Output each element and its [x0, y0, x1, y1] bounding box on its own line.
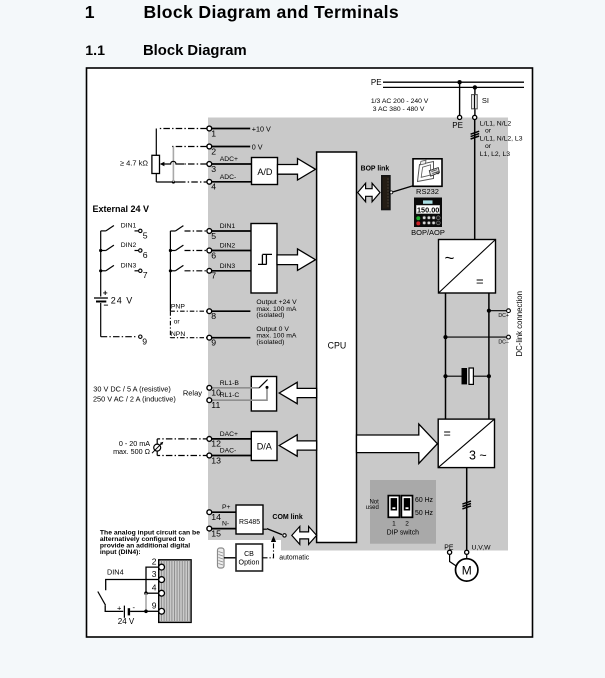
svg-text:SI: SI: [482, 96, 489, 105]
external switch DIN1: [101, 223, 148, 241]
arrow CPU to inverter: [357, 424, 438, 464]
wire potentiometer to terminal 4: [156, 174, 207, 184]
svg-text:max. 500 Ω: max. 500 Ω: [113, 447, 151, 456]
terminal 12 DAC+: [157, 431, 251, 449]
svg-text:250 V AC / 2 A (inductive): 250 V AC / 2 A (inductive): [93, 394, 176, 403]
svg-text:DIN4: DIN4: [107, 568, 124, 577]
svg-text:0 V: 0 V: [252, 142, 263, 151]
svg-text:−: −: [104, 300, 109, 310]
svg-text:(isolated): (isolated): [256, 312, 284, 319]
BOP link double arrow: [358, 183, 380, 202]
inverter gray body: [208, 118, 508, 551]
svg-text:7: 7: [211, 271, 216, 281]
svg-text:30 V DC / 5 A (resistive): 30 V DC / 5 A (resistive): [93, 385, 170, 394]
arrow DIN to CPU: [277, 249, 316, 271]
DIN4 terminal bus: [144, 567, 159, 613]
svg-text:RL1-B: RL1-B: [220, 380, 240, 387]
DIN4 block terminal 9: [152, 601, 165, 615]
terminal 5 DIN1: [207, 223, 251, 241]
svg-text:1: 1: [211, 128, 216, 138]
svg-text:or: or: [174, 318, 181, 325]
svg-text:2: 2: [211, 146, 216, 156]
svg-text:A/D: A/D: [257, 167, 273, 177]
svg-text:5: 5: [143, 230, 148, 240]
potentiometer R1: [120, 155, 160, 173]
motor wire: [462, 468, 471, 550]
internal supply rail: [169, 231, 171, 338]
external battery 24 V: [94, 287, 133, 310]
svg-text:11: 11: [211, 400, 220, 410]
rectifier block: [439, 240, 496, 294]
gray wire terminal 2 down: [172, 147, 207, 183]
relay contact symbol: [259, 380, 269, 389]
terminal 9 output 0V: [207, 326, 297, 348]
mains input wire: [471, 120, 480, 240]
DIN4 note paragraph: [100, 529, 200, 556]
terminal 1: [207, 124, 271, 138]
mains terminal labels: [480, 120, 523, 158]
svg-text:BOP/AOP: BOP/AOP: [411, 228, 445, 237]
DC+ terminal: [487, 309, 511, 319]
NPN wire to 9: [170, 331, 206, 338]
svg-text:1: 1: [85, 2, 95, 22]
DIN4 block terminal 3: [152, 569, 165, 582]
svg-text:CB: CB: [244, 550, 254, 558]
DC bus left wire: [445, 293, 447, 419]
terminal 8 output 24V: [207, 299, 297, 321]
svg-text:N-: N-: [222, 521, 229, 528]
PNP wire to 8: [170, 304, 206, 312]
DIN4 block terminal 4: [152, 582, 165, 596]
svg-text:2: 2: [152, 556, 157, 566]
terminal 6 DIN2: [207, 243, 251, 261]
svg-text:3 ~: 3 ~: [469, 449, 487, 463]
svg-text:NPN: NPN: [171, 331, 185, 338]
svg-text:7: 7: [143, 270, 148, 280]
internal switch DIN2: [169, 245, 207, 252]
svg-text:BOP link: BOP link: [361, 165, 390, 172]
svg-text:P+: P+: [222, 504, 231, 511]
svg-text:13: 13: [211, 455, 221, 465]
svg-text:Option: Option: [239, 559, 260, 567]
CPU U1: [317, 152, 357, 543]
automatic dash-dot wire: [263, 536, 310, 562]
external common wire to 9: [101, 335, 148, 346]
svg-text:+10 V: +10 V: [252, 124, 271, 133]
arrow A/D to CPU: [278, 159, 316, 181]
DC bus right wire: [488, 293, 490, 419]
external switch DIN3: [99, 263, 148, 281]
diagram frame: [87, 68, 533, 637]
svg-text:6: 6: [143, 250, 148, 260]
inverter block: [438, 419, 494, 468]
RS232 box: [413, 159, 442, 187]
BOP connector strip: [381, 175, 413, 210]
svg-text:PE: PE: [371, 78, 382, 87]
terminal 14 P+: [207, 504, 236, 522]
svg-text:14: 14: [211, 512, 221, 522]
svg-text:24 V: 24 V: [118, 617, 135, 626]
terminal 10 RL1-B: [207, 380, 259, 398]
wire terminal 1 to potentiometer: [156, 129, 207, 156]
PE drop wire: [452, 80, 463, 130]
RS485 box: [236, 505, 263, 534]
svg-text:L1, L2, L3: L1, L2, L3: [480, 151, 510, 158]
svg-text:DIN3: DIN3: [121, 263, 137, 270]
svg-text:4: 4: [152, 582, 157, 592]
svg-text:PE: PE: [452, 121, 463, 130]
svg-text:DIN2: DIN2: [121, 242, 137, 249]
svg-text:ADC+: ADC+: [220, 156, 238, 163]
fuse SI: [472, 85, 489, 119]
svg-text:RS232: RS232: [416, 187, 439, 196]
svg-text:(isolated): (isolated): [256, 339, 284, 346]
svg-text:1.1: 1.1: [85, 43, 105, 59]
mains line: [383, 86, 524, 88]
svg-text:15: 15: [211, 528, 221, 538]
svg-text:6: 6: [211, 250, 216, 260]
svg-text:input (DIN4):: input (DIN4):: [100, 549, 141, 556]
terminal 7 DIN3: [207, 263, 251, 281]
DIN4 block terminal 2: [152, 556, 165, 570]
svg-text:24 V: 24 V: [111, 296, 134, 306]
svg-text:5: 5: [211, 231, 216, 241]
DIP switch panel: [366, 480, 436, 544]
PE line: [383, 81, 524, 83]
CB option module: [236, 544, 263, 571]
relay RL1 box: [251, 377, 276, 412]
COM link switch: [263, 529, 286, 538]
svg-text:9: 9: [152, 601, 157, 611]
svg-text:COM link: COM link: [272, 514, 302, 521]
DIN4 switch: [98, 580, 146, 612]
svg-text:PE: PE: [444, 545, 454, 552]
svg-text:+: +: [117, 604, 122, 613]
svg-text:=: =: [444, 427, 451, 441]
DC- terminal: [443, 335, 510, 346]
svg-text:ADC-: ADC-: [220, 174, 237, 181]
svg-text:Block Diagram and Terminals: Block Diagram and Terminals: [144, 2, 400, 22]
svg-text:DC–: DC–: [498, 340, 508, 346]
terminal 13 DAC-: [157, 448, 251, 466]
svg-text:DIP switch: DIP switch: [387, 529, 420, 536]
svg-text:DIN3: DIN3: [220, 263, 236, 270]
svg-text:=: =: [476, 274, 484, 289]
COM link double arrow: [292, 526, 317, 544]
digital input stage box: [251, 224, 277, 294]
internal switch DIN3: [169, 265, 207, 272]
external supply rail: [100, 231, 102, 337]
svg-text:50 Hz: 50 Hz: [415, 510, 434, 517]
svg-text:3: 3: [211, 164, 216, 174]
svg-text:150.00: 150.00: [417, 205, 439, 214]
svg-text:PNP: PNP: [171, 304, 185, 311]
svg-text:RL1-C: RL1-C: [220, 392, 240, 399]
svg-text:60 Hz: 60 Hz: [415, 497, 434, 504]
output current meter: [113, 439, 163, 456]
svg-text:External 24 V: External 24 V: [93, 204, 150, 214]
BOP/AOP panel: [414, 198, 442, 228]
motor M: [456, 559, 478, 581]
terminal 2: [207, 142, 263, 156]
svg-text:DAC+: DAC+: [220, 431, 238, 438]
svg-text:3 AC 380 - 480 V: 3 AC 380 - 480 V: [373, 106, 425, 113]
U,V,W output terminal: [465, 545, 491, 559]
svg-text:DIN2: DIN2: [220, 243, 236, 250]
svg-text:2: 2: [405, 521, 409, 528]
svg-text:or: or: [485, 143, 492, 150]
svg-text:1/3 AC 200 - 240 V: 1/3 AC 200 - 240 V: [371, 98, 429, 105]
svg-text:9: 9: [142, 336, 147, 346]
svg-text:L/L1, N/L2, L3: L/L1, N/L2, L3: [480, 136, 523, 143]
svg-text:CPU: CPU: [328, 340, 347, 350]
svg-text:used: used: [366, 505, 379, 511]
option connector icon: [218, 548, 225, 568]
terminal 4 ADC-: [207, 174, 252, 192]
svg-text:1: 1: [392, 521, 396, 528]
wire connector to CB option: [224, 557, 236, 559]
terminal 3 ADC+: [207, 156, 252, 174]
terminal 11 RL1-C: [207, 387, 267, 410]
svg-text:DC+: DC+: [498, 313, 509, 319]
svg-text:9: 9: [211, 338, 216, 348]
arrow CPU to relay: [279, 382, 316, 403]
PE output terminal: [444, 545, 456, 567]
svg-text:Relay: Relay: [183, 389, 202, 398]
svg-text:L/L1, N/L2: L/L1, N/L2: [480, 120, 512, 127]
DIN4 terminal block: [159, 560, 191, 623]
svg-text:DIN1: DIN1: [220, 223, 236, 230]
svg-text:automatic: automatic: [279, 555, 309, 562]
svg-text:+: +: [103, 287, 108, 297]
svg-text:DC-link connection: DC-link connection: [515, 291, 524, 356]
svg-text:4: 4: [211, 182, 216, 192]
external switch DIN2: [99, 242, 148, 260]
svg-text:RS485: RS485: [239, 519, 260, 526]
svg-text:DIN1: DIN1: [121, 223, 137, 230]
svg-text:DAC-: DAC-: [220, 448, 237, 455]
svg-text:~: ~: [445, 249, 455, 268]
terminal 15 N-: [207, 521, 236, 539]
internal switch DIN1: [170, 226, 206, 231]
svg-text:M: M: [462, 563, 472, 577]
D/A converter: [251, 432, 277, 461]
svg-text:3: 3: [152, 569, 157, 579]
DIN4 battery 24 V: [117, 603, 146, 626]
svg-text:U,V,W: U,V,W: [472, 545, 492, 552]
svg-text:≥ 4.7 kΩ: ≥ 4.7 kΩ: [120, 158, 148, 167]
arrow CPU to D/A: [279, 435, 316, 456]
DC link capacitor C1: [443, 368, 491, 384]
A/D converter: [252, 158, 278, 185]
svg-text:or: or: [485, 128, 492, 135]
wiper wire terminal 3: [160, 161, 207, 166]
svg-text:D/A: D/A: [257, 441, 273, 451]
svg-text:8: 8: [211, 311, 216, 321]
svg-text:Block Diagram: Block Diagram: [143, 43, 247, 59]
